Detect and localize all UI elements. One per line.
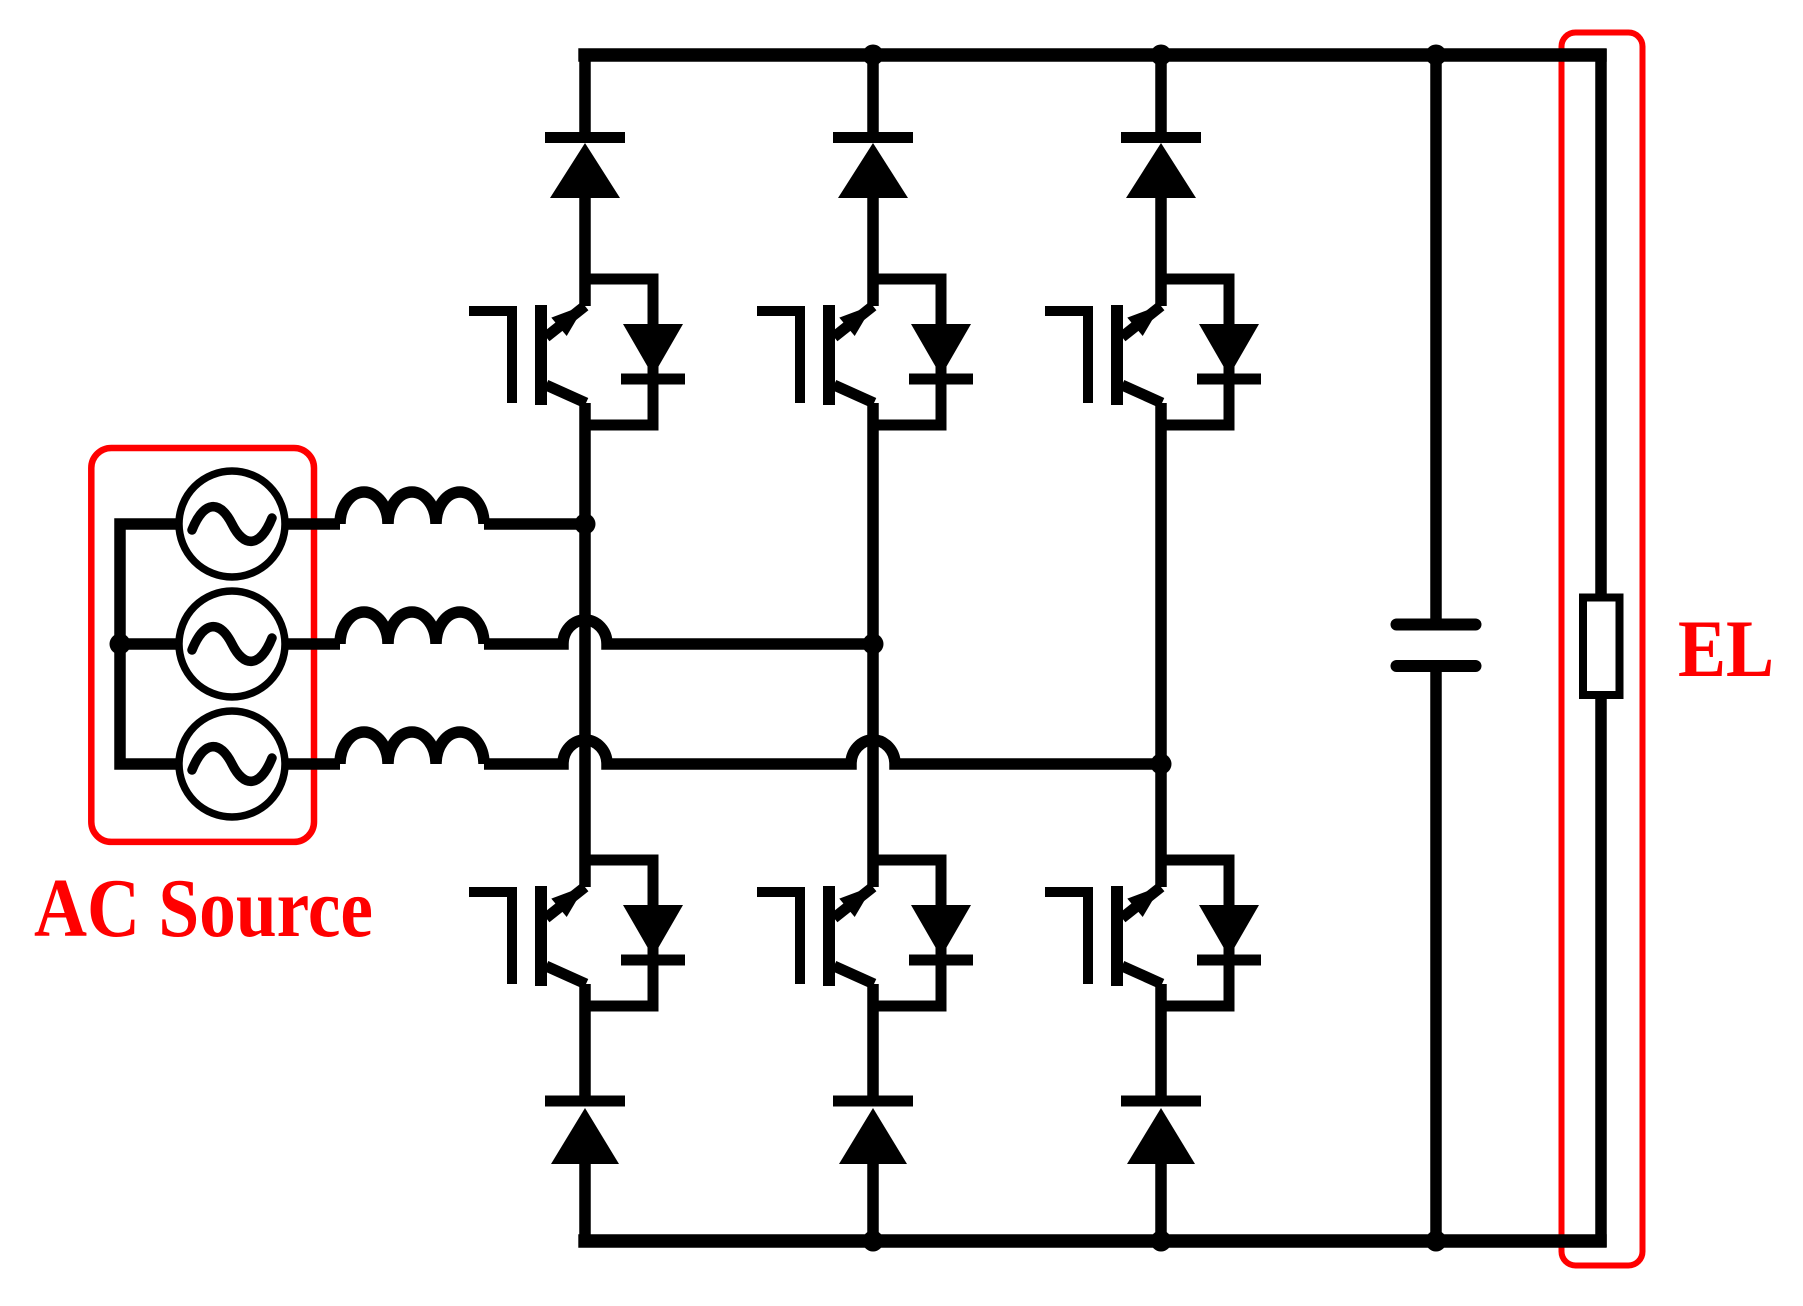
svg-text:AC Source: AC Source [34,862,373,955]
inductor L1 [340,492,484,524]
wire: leg1 phase midpoint (upper IGBT emitter to lower IGBT collector) [579,403,591,887]
wire: capacitor branch bottom lead [1430,672,1442,1241]
diode D6 [1121,1101,1201,1164]
wire: phase C from source V3 to inductor L3 [287,758,340,770]
AC voltage source V2 [179,591,285,697]
diode D1 [545,138,625,199]
wire: leg1 between top diode and upper IGBT collector [579,197,591,306]
IGBT Q5 [757,886,874,986]
IGBT Q2 [757,305,874,405]
junction node phase B / leg2 [863,634,884,655]
wire: phase A from source V1 to inductor L1 [287,518,340,530]
wire: phase C from L3 to leg3 midpoint, hops over leg1 and leg2 [484,740,1161,764]
red highlight box around AC source group [91,448,314,842]
junction node capacitor / top rail [1426,45,1447,66]
IGBT Q6 [1045,886,1162,986]
red highlight box around EL load branch [1562,33,1643,1266]
diode D3 [1121,138,1201,199]
wire: phase B from source V2 to inductor L2 [287,638,340,650]
wire: leg1 riser to top rail [579,49,591,137]
junction node capacitor / bottom rail [1426,1231,1447,1252]
capacitor C1 [1397,625,1476,667]
wire: leg2 bottom drop to rail [867,1164,879,1241]
anti-parallel diode DQ3 [1161,279,1261,425]
wire: leg3 lower IGBT emitter to bottom diode [1155,984,1167,1103]
IGBT Q3 [1045,305,1162,405]
anti-parallel diode DQ6 [1161,860,1261,1006]
junction node leg3 / top rail [1151,45,1172,66]
wire: leg2 between top diode and upper IGBT collector [867,197,879,306]
junction node neutral bus / V2 [110,634,131,655]
wire: leg3 bottom drop to rail [1155,1164,1167,1241]
AC voltage source V3 [179,711,285,817]
wire: capacitor branch top lead [1430,55,1442,619]
wire: EL branch bottom lead [1595,694,1607,1247]
wire: leg2 lower IGBT emitter to bottom diode [867,984,879,1103]
junction node leg2 / top rail [863,45,884,66]
junction node leg2 / bottom rail [863,1231,884,1252]
wire: leg2 phase midpoint (upper IGBT emitter to lower IGBT collector) [867,403,879,887]
inductor L2 [340,612,484,644]
IGBT Q1 [469,305,586,405]
anti-parallel diode DQ4 [585,860,685,1006]
anti-parallel diode DQ1 [585,279,685,425]
AC voltage source V1 [179,471,285,577]
IGBT Q4 [469,886,586,986]
wire: leg3 between top diode and upper IGBT collector [1155,197,1167,306]
wire: bottom DC rail (negative bus) [578,1234,1606,1248]
wire: phase B from L2 to leg2 midpoint, hop over leg1 [484,620,873,644]
svg-text:EL: EL [1678,603,1774,694]
inductor L3 [340,732,484,764]
anti-parallel diode DQ5 [873,860,973,1006]
wire: leg3 top riser to rail [1155,55,1167,137]
diode D2 [833,138,913,199]
wire: phase A from L1 to leg1 midpoint [484,518,585,530]
wire: EL branch top lead [1595,49,1607,598]
junction node phase A / leg1 [575,514,596,535]
junction node phase C / leg3 [1151,754,1172,775]
electrolyzer load EL (resistor body) [1583,598,1620,696]
wire: leg1 lower IGBT emitter to bottom diode [579,984,591,1103]
wire: leg3 phase midpoint (upper IGBT emitter to lower IGBT collector) [1155,403,1167,887]
wire: top DC rail (positive bus) [578,48,1606,62]
diode D4 [545,1101,625,1164]
diode D5 [833,1101,913,1164]
wire: leg1 drop to bottom rail [579,1163,591,1247]
wire: neutral stub to middle source [120,638,179,650]
junction node leg3 / bottom rail [1151,1231,1172,1252]
anti-parallel diode DQ2 [873,279,973,425]
wire: AC neutral bus on left of sources [120,524,179,764]
wire: leg2 top riser to rail [867,55,879,137]
